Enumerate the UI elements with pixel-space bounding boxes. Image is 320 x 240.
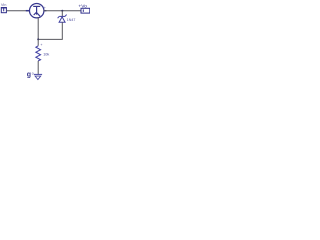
transistor Q1 (in circle) <box>30 4 44 18</box>
svg-text:Vin: Vin <box>1 2 7 7</box>
svg-text:o: o <box>32 71 34 75</box>
wire Q1 base down <box>37 17 39 39</box>
wire R1 to ground <box>37 61 39 74</box>
svg-text:+: + <box>40 43 42 47</box>
wire node A down to D1 <box>61 11 63 17</box>
svg-text:+: + <box>44 6 46 10</box>
port P2 (output terminal) <box>81 8 90 13</box>
resistor R1 <box>36 46 41 61</box>
wire Q1 to output port <box>44 10 81 12</box>
wire bottom horizontal <box>38 38 63 40</box>
wire D1 down <box>61 22 63 39</box>
wire node B to R1 <box>37 39 39 45</box>
pin stub Q1 left <box>26 10 30 12</box>
port P1 (input terminal) <box>1 8 6 13</box>
ground <box>34 74 42 79</box>
junction node B <box>37 38 39 40</box>
svg-text:1N47: 1N47 <box>67 18 76 22</box>
zener diode D1 <box>58 15 67 23</box>
svg-text:g: g <box>27 72 31 79</box>
wire input port to Q1 <box>7 10 30 12</box>
svg-text:10k: 10k <box>43 53 49 57</box>
junction node A <box>61 10 63 12</box>
pin stub Q1 right <box>44 10 47 12</box>
